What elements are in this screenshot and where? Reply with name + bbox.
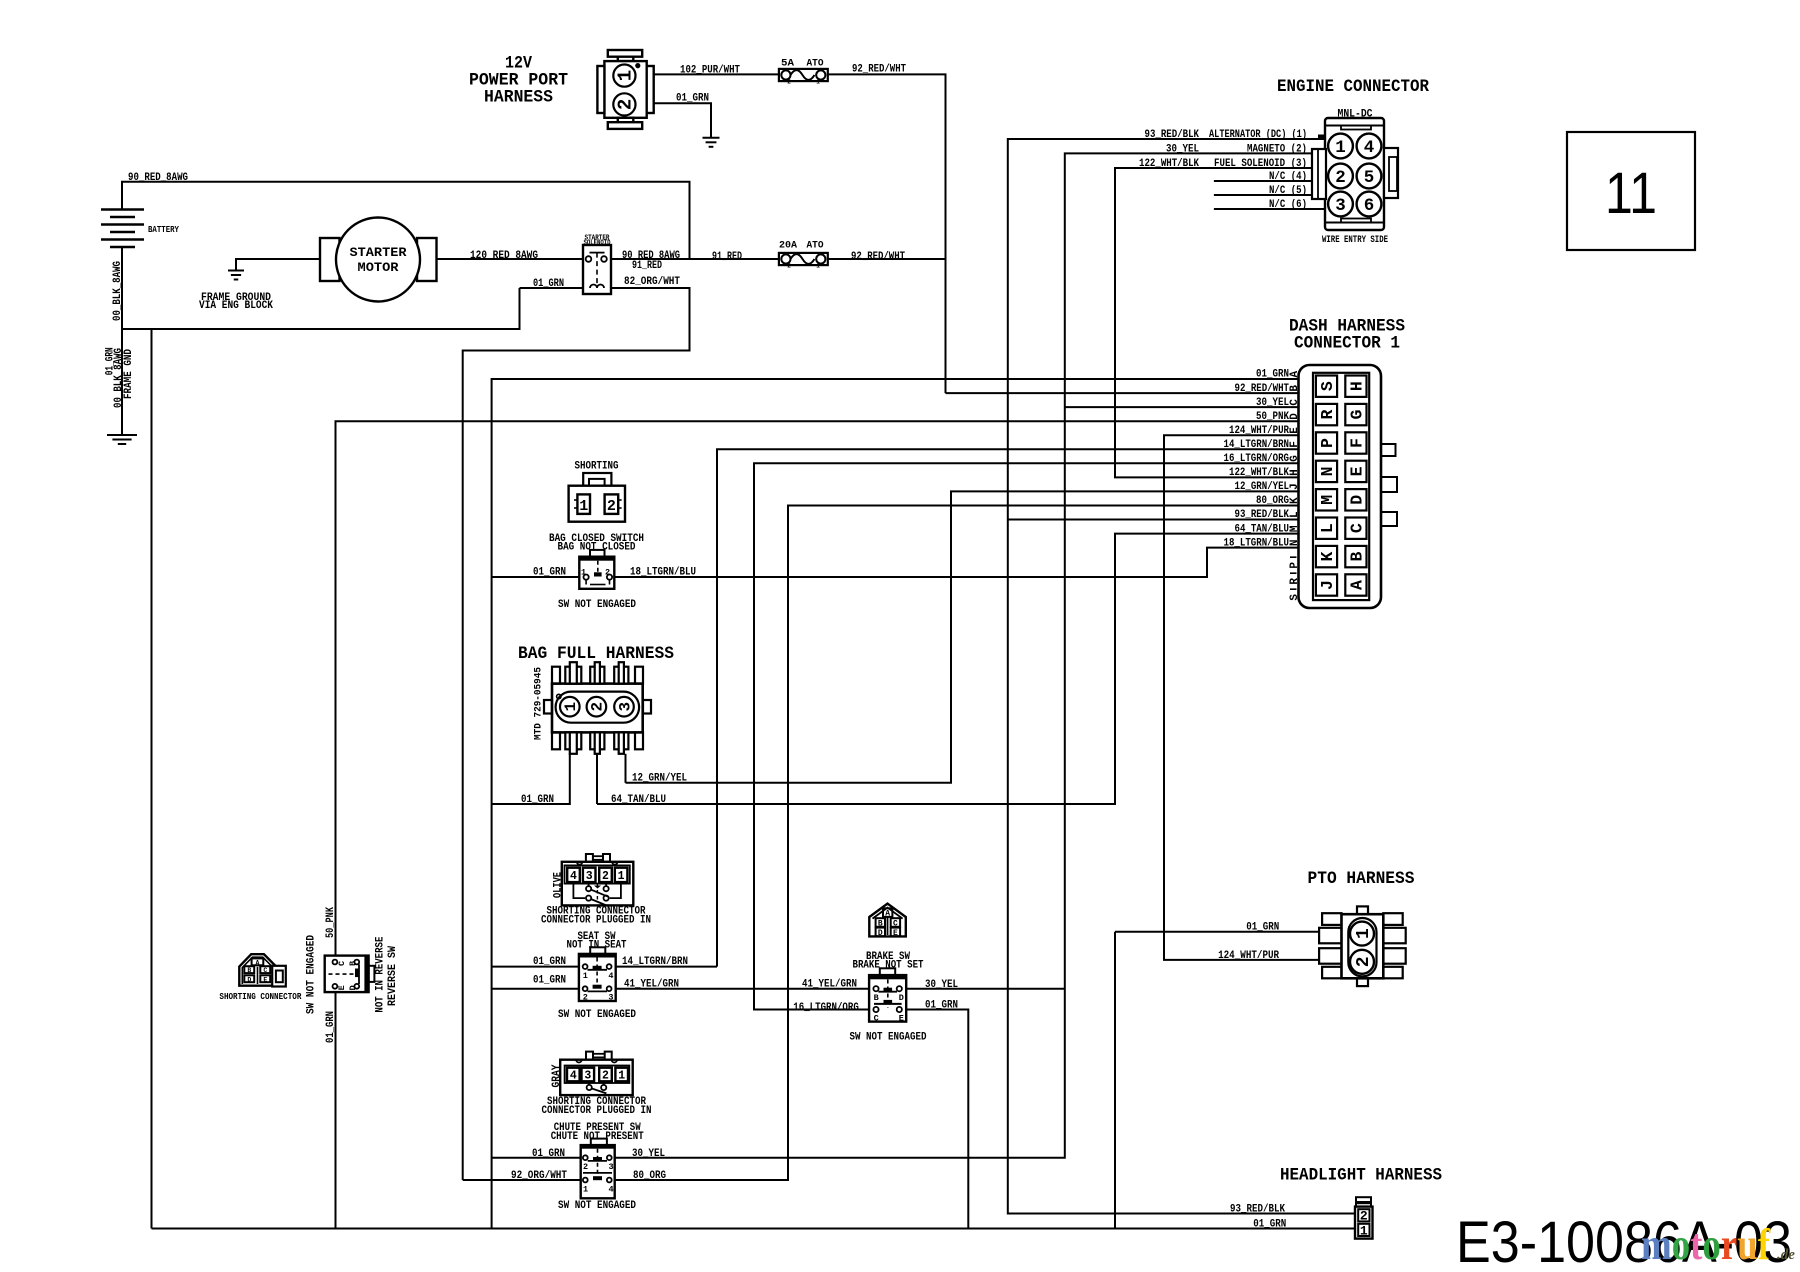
olive shorting pin 1 bbox=[615, 868, 628, 882]
starter motor bbox=[320, 238, 340, 281]
dash pin box D bbox=[1345, 489, 1366, 510]
dash pin box J bbox=[1316, 574, 1337, 595]
svg-text:J: J bbox=[1289, 483, 1301, 490]
wire 01_GRN bag harness pin1 bbox=[492, 754, 570, 804]
svg-text:D: D bbox=[1289, 413, 1301, 420]
svg-text:01_GRN: 01_GRN bbox=[533, 956, 566, 968]
svg-text:STARTER: STARTER bbox=[350, 246, 408, 260]
olive shorting internal contacts bbox=[573, 882, 585, 898]
wire 12_GRN/YEL bag harness pin3 bbox=[625, 754, 627, 783]
svg-text:2: 2 bbox=[787, 79, 791, 86]
svg-text:L: L bbox=[1318, 523, 1337, 533]
svg-text:M: M bbox=[1289, 525, 1301, 532]
svg-text:B: B bbox=[1289, 385, 1301, 392]
svg-text:BRAKE NOT SET: BRAKE NOT SET bbox=[853, 959, 924, 971]
svg-text:F: F bbox=[1289, 441, 1301, 448]
svg-text:1: 1 bbox=[618, 870, 625, 883]
svg-text:01_GRN: 01_GRN bbox=[325, 1011, 337, 1043]
svg-text:2: 2 bbox=[615, 99, 637, 110]
svg-text:NOT IN SEAT: NOT IN SEAT bbox=[567, 939, 627, 951]
svg-text:CONNECTOR PLUGGED IN: CONNECTOR PLUGGED IN bbox=[541, 914, 651, 926]
watermark motoruf.de bbox=[1641, 1220, 1795, 1269]
wire 01_GRN to chute pin2 bbox=[492, 1157, 581, 1159]
svg-text:90_RED_8AWG: 90_RED_8AWG bbox=[128, 172, 188, 184]
svg-text:01_GRN: 01_GRN bbox=[676, 92, 709, 104]
bag harness pin 3 bbox=[614, 697, 634, 717]
svg-text:01_GRN: 01_GRN bbox=[533, 278, 564, 290]
wire 14_LTGRN/BRN seat switch pin4 bbox=[616, 966, 717, 968]
svg-text:E: E bbox=[1347, 466, 1366, 476]
svg-text:50_PNK: 50_PNK bbox=[325, 907, 337, 938]
svg-text:2: 2 bbox=[583, 1162, 588, 1172]
svg-text:1: 1 bbox=[583, 1185, 588, 1195]
svg-text:122_WHT/BLK: 122_WHT/BLK bbox=[1229, 467, 1289, 479]
dash pin box L bbox=[1316, 518, 1337, 539]
svg-text:N: N bbox=[1318, 466, 1337, 476]
dash pin box B bbox=[1345, 546, 1366, 567]
svg-text:102_PUR/WHT: 102_PUR/WHT bbox=[680, 64, 740, 76]
svg-text:01_GRN: 01_GRN bbox=[533, 567, 566, 579]
brake house pin D bbox=[876, 928, 885, 937]
brake house pin C bbox=[891, 918, 900, 927]
svg-text:3: 3 bbox=[608, 993, 613, 1003]
connector engine MNL-DC bbox=[1325, 118, 1384, 230]
svg-text:5A: 5A bbox=[781, 58, 795, 70]
svg-text:SW NOT ENGAGED: SW NOT ENGAGED bbox=[306, 935, 318, 1014]
svg-text:HEADLIGHT HARNESS: HEADLIGHT HARNESS bbox=[1280, 1166, 1442, 1186]
dash connector key tabs bbox=[1381, 444, 1396, 456]
svg-text:FUEL SOLENOID (3): FUEL SOLENOID (3) bbox=[1214, 158, 1307, 170]
wire 90_RED_8AWG battery to solenoid feed bbox=[122, 182, 690, 259]
switch seat bbox=[590, 947, 605, 954]
svg-text:HARNESS: HARNESS bbox=[484, 88, 553, 108]
svg-text:ATO: ATO bbox=[807, 58, 824, 70]
svg-text:E: E bbox=[263, 976, 267, 983]
wire 16_LTGRN/ORG dash pin G bbox=[754, 463, 1299, 1009]
dash pin box C bbox=[1345, 518, 1366, 539]
bag harness pin 2 bbox=[587, 697, 607, 717]
svg-text:01_GRN: 01_GRN bbox=[521, 794, 554, 806]
svg-text:FRAME GND: FRAME GND bbox=[123, 349, 135, 399]
shorting pin 1 bbox=[577, 494, 590, 514]
svg-text:01_GRN: 01_GRN bbox=[1253, 1219, 1286, 1231]
svg-text:4: 4 bbox=[570, 1070, 577, 1083]
svg-text:C: C bbox=[263, 967, 267, 974]
olive shorting pin 4 bbox=[567, 868, 580, 882]
svg-text:2: 2 bbox=[602, 870, 609, 883]
page reference box 11 bbox=[1567, 132, 1695, 250]
engine connector pin 1 bbox=[1328, 134, 1353, 159]
wire 92_RED/WHT 20A fuse to node bbox=[828, 258, 946, 260]
wire 64_TAN/BLU dash pin M bbox=[597, 534, 1299, 804]
fuse F1 5A ATO bbox=[779, 69, 828, 81]
svg-text:41_YEL/GRN: 41_YEL/GRN bbox=[624, 978, 679, 990]
svg-text:1: 1 bbox=[583, 971, 588, 981]
svg-text:REVERSE SW: REVERSE SW bbox=[387, 946, 399, 1006]
svg-text:B: B bbox=[874, 993, 879, 1003]
wire 01_GRN brake pinE to bottom line bbox=[906, 1010, 968, 1229]
svg-text:92_RED/WHT: 92_RED/WHT bbox=[852, 63, 906, 75]
wire 01_GRN seat switch pin2 bbox=[492, 988, 579, 990]
connector PTO harness bbox=[1319, 906, 1406, 986]
svg-text:G: G bbox=[1289, 455, 1301, 462]
svg-text:VIA ENG BLOCK: VIA ENG BLOCK bbox=[199, 300, 273, 312]
svg-text:N/C (5): N/C (5) bbox=[1269, 185, 1307, 197]
dash pin box N bbox=[1316, 461, 1337, 482]
wire 93_RED/BLK dash pin L bbox=[1008, 519, 1299, 521]
svg-text:1: 1 bbox=[816, 79, 820, 86]
svg-text:L: L bbox=[1289, 511, 1301, 518]
wire 82_ORG/WHT solenoid coil right bbox=[463, 288, 690, 1180]
connector shorting 2-pin bbox=[583, 473, 611, 486]
battery bbox=[101, 210, 144, 248]
wire 30_YEL brake pinD to 30_YEL bus bbox=[906, 988, 1065, 990]
svg-text:2: 2 bbox=[1335, 168, 1346, 188]
wire 120_RED_8AWG motor to solenoid bbox=[437, 258, 583, 260]
svg-text:D: D bbox=[899, 993, 904, 1003]
svg-text:93_RED/BLK: 93_RED/BLK bbox=[1145, 129, 1200, 141]
svg-text:16_LTGRN/ORG: 16_LTGRN/ORG bbox=[1224, 453, 1290, 465]
svg-text:1: 1 bbox=[579, 498, 588, 515]
svg-text:3: 3 bbox=[616, 702, 634, 712]
PTO pin 1 bbox=[1350, 922, 1374, 946]
svg-text:1: 1 bbox=[562, 702, 580, 712]
wire 01_GRN power port ground bbox=[654, 103, 711, 138]
svg-text:4: 4 bbox=[570, 870, 577, 883]
svg-text:P: P bbox=[1318, 438, 1337, 448]
wire N/C (6) bbox=[1214, 208, 1326, 210]
svg-text:3: 3 bbox=[586, 870, 593, 883]
wire 124_WHT/PUR dash pin E bbox=[1164, 435, 1342, 960]
svg-text:A: A bbox=[256, 959, 260, 966]
svg-text:E: E bbox=[1289, 427, 1301, 434]
svg-text:H: H bbox=[1347, 381, 1366, 391]
wire 102_PUR/WHT power port to 5A fuse bbox=[654, 73, 779, 75]
svg-text:01_GRN: 01_GRN bbox=[925, 1000, 958, 1012]
switch reverse (rotated) bbox=[325, 956, 369, 993]
dash pin box E bbox=[1345, 461, 1366, 482]
connector shorting house (brake sw) bbox=[869, 904, 906, 937]
svg-text:MNL-DC: MNL-DC bbox=[1338, 109, 1373, 121]
svg-text:1: 1 bbox=[1360, 1223, 1368, 1238]
svg-text:2: 2 bbox=[787, 263, 791, 270]
svg-text:G: G bbox=[1347, 410, 1366, 420]
house pin E bbox=[260, 975, 270, 982]
svg-text:30_YEL: 30_YEL bbox=[1256, 397, 1289, 409]
svg-text:92_RED/WHT: 92_RED/WHT bbox=[1235, 383, 1290, 395]
bag harness left tab bbox=[544, 700, 552, 714]
gray pin row outline bbox=[565, 1066, 630, 1084]
connector shorting house (reverse sw) bbox=[239, 954, 276, 986]
brake house pin A bbox=[883, 908, 892, 917]
svg-text:C: C bbox=[874, 1014, 879, 1024]
svg-text:1: 1 bbox=[615, 70, 637, 81]
svg-text:A: A bbox=[1289, 371, 1301, 378]
wire N/C (5) bbox=[1214, 194, 1326, 196]
connector bag full harness MTD 729-05945 bbox=[552, 684, 643, 733]
svg-text:6: 6 bbox=[1364, 196, 1375, 216]
svg-text:SW NOT ENGAGED: SW NOT ENGAGED bbox=[558, 599, 636, 611]
svg-text:MAGNETO (2): MAGNETO (2) bbox=[1247, 143, 1307, 155]
svg-text:C: C bbox=[1347, 523, 1366, 533]
svg-text:B: B bbox=[1347, 552, 1366, 562]
connector dash harness 1 bbox=[1299, 365, 1382, 608]
wire 00_BLK_8AWG ground bus bbox=[122, 288, 520, 329]
starter solenoid bbox=[583, 245, 611, 294]
svg-text:F: F bbox=[1347, 438, 1366, 448]
olive shorting pin 2 bbox=[599, 868, 612, 882]
svg-text:.de: .de bbox=[1777, 1247, 1795, 1263]
svg-text:E: E bbox=[337, 985, 347, 990]
svg-text:2: 2 bbox=[607, 498, 616, 515]
svg-text:4: 4 bbox=[608, 971, 613, 981]
svg-text:D: D bbox=[878, 929, 883, 938]
svg-text:ALTERNATOR (DC) (1): ALTERNATOR (DC) (1) bbox=[1209, 129, 1307, 141]
house pin B bbox=[244, 966, 254, 973]
svg-text:120_RED_8AWG: 120_RED_8AWG bbox=[470, 250, 538, 262]
svg-text:91_RED: 91_RED bbox=[712, 251, 742, 263]
engine connector pin 3 bbox=[1328, 192, 1353, 217]
house pin A bbox=[252, 958, 264, 965]
svg-text:14_LTGRN/BRN: 14_LTGRN/BRN bbox=[1224, 439, 1290, 451]
svg-text:3: 3 bbox=[609, 1162, 614, 1172]
engine connector pin 5 bbox=[1357, 164, 1382, 189]
fuse F2 20A ATO bbox=[779, 253, 828, 265]
bag harness right tab bbox=[643, 700, 651, 714]
svg-text:D: D bbox=[348, 985, 358, 990]
svg-text:01_GRN: 01_GRN bbox=[1256, 369, 1289, 381]
svg-text:ATO: ATO bbox=[807, 239, 824, 251]
shorting pin 2 bbox=[605, 494, 619, 514]
brake house pin B bbox=[876, 918, 885, 927]
svg-text:1: 1 bbox=[618, 1070, 625, 1083]
connector headlight harness bbox=[1356, 1197, 1371, 1202]
svg-text:00_BLK_8AWG: 00_BLK_8AWG bbox=[112, 261, 124, 321]
connector shorting gray 4-pin bbox=[586, 1052, 593, 1060]
svg-text:124_WHT/PUR: 124_WHT/PUR bbox=[1229, 425, 1289, 437]
svg-text:R: R bbox=[1289, 578, 1301, 585]
svg-text:motoruf: motoruf bbox=[1641, 1220, 1771, 1269]
wire 122_WHT/BLK fuel solenoid bbox=[1115, 168, 1326, 477]
svg-text:C: C bbox=[1289, 399, 1301, 406]
svg-text:3: 3 bbox=[584, 1070, 591, 1083]
svg-text:C: C bbox=[337, 961, 347, 966]
svg-text:14_LTGRN/BRN: 14_LTGRN/BRN bbox=[622, 956, 688, 968]
wire 01_GRN PTO pin1 bbox=[1115, 931, 1342, 933]
wire 41_YEL/GRN seat pin3 to brake pinB bbox=[616, 988, 869, 990]
bag harness pin 1 bbox=[560, 697, 580, 717]
svg-text:BAG NOT CLOSED: BAG NOT CLOSED bbox=[558, 541, 636, 553]
switch chute present bbox=[591, 1139, 607, 1146]
svg-text:4: 4 bbox=[1364, 138, 1375, 158]
wire 01_GRN to bag closed switch bbox=[492, 576, 580, 578]
PTO pin 2 bbox=[1350, 950, 1374, 974]
dash pin box R bbox=[1316, 404, 1337, 425]
gray shorting pin 4 bbox=[567, 1068, 580, 1082]
svg-text:16_LTGRN/ORG: 16_LTGRN/ORG bbox=[793, 1002, 859, 1014]
gray shorting pin 3 bbox=[582, 1068, 595, 1082]
svg-text:CHUTE NOT PRESENT: CHUTE NOT PRESENT bbox=[551, 1131, 644, 1143]
wire 01_GRN bottom ground line to headlight bbox=[152, 1228, 1356, 1230]
wire 01_GRN seat switch pin1 bbox=[492, 966, 579, 968]
wire 30_YEL dash pin C bbox=[1065, 406, 1299, 408]
olive pin row outline bbox=[565, 865, 630, 883]
svg-text:82_ORG/WHT: 82_ORG/WHT bbox=[624, 276, 680, 288]
wire 01_GRN solenoid coil left bbox=[520, 287, 584, 289]
svg-text:4: 4 bbox=[609, 1185, 614, 1195]
svg-text:ENGINE CONNECTOR: ENGINE CONNECTOR bbox=[1277, 77, 1429, 97]
svg-text:11: 11 bbox=[1605, 161, 1657, 226]
svg-text:41_YEL/GRN: 41_YEL/GRN bbox=[802, 978, 857, 990]
wire 80_ORG dash pin K bbox=[615, 506, 1299, 1181]
svg-text:2: 2 bbox=[589, 702, 607, 712]
svg-text:P: P bbox=[1289, 562, 1301, 569]
svg-text:2: 2 bbox=[602, 1070, 609, 1083]
wire 01_GRN dash pin A bbox=[492, 379, 1299, 1229]
svg-text:NOT IN REVERSE: NOT IN REVERSE bbox=[375, 936, 387, 1012]
ground frame ground via eng block bbox=[228, 271, 244, 280]
switch bag closed bbox=[590, 550, 605, 557]
wire 50_PNK dash pin D bbox=[336, 421, 1299, 956]
engine connector pin 6 bbox=[1357, 192, 1382, 217]
svg-text:20A: 20A bbox=[779, 239, 798, 251]
svg-text:S: S bbox=[1318, 381, 1337, 391]
svg-text:01_GRN: 01_GRN bbox=[1246, 922, 1279, 934]
dash pin box K bbox=[1316, 546, 1337, 567]
wire frame gnd drop to bottom 01_GRN line bbox=[151, 329, 153, 1229]
svg-text:SW NOT ENGAGED: SW NOT ENGAGED bbox=[558, 1200, 636, 1212]
wire 12_GRN/YEL dash pin J bbox=[626, 491, 1299, 782]
svg-text:SW NOT ENGAGED: SW NOT ENGAGED bbox=[558, 1009, 636, 1021]
wire N/C (4) bbox=[1214, 180, 1326, 182]
svg-text:E: E bbox=[899, 1014, 904, 1024]
svg-text:1: 1 bbox=[816, 263, 820, 270]
svg-text:30_YEL: 30_YEL bbox=[925, 979, 958, 991]
connector shorting olive 4-pin bbox=[586, 854, 593, 862]
svg-text:D: D bbox=[1347, 495, 1366, 505]
dash pin box H bbox=[1345, 376, 1366, 397]
svg-text:2: 2 bbox=[1354, 956, 1374, 967]
svg-text:12_GRN/YEL: 12_GRN/YEL bbox=[632, 772, 687, 784]
svg-text:92_RED/WHT: 92_RED/WHT bbox=[851, 251, 905, 263]
svg-text:3: 3 bbox=[1335, 196, 1346, 216]
svg-text:B: B bbox=[348, 961, 358, 966]
svg-text:SHORTING CONNECTOR: SHORTING CONNECTOR bbox=[219, 991, 301, 1002]
svg-text:WIRE ENTRY SIDE: WIRE ENTRY SIDE bbox=[1322, 235, 1388, 246]
gray shorting pin 1 bbox=[615, 1068, 628, 1082]
wire 90_RED_8AWG / 91_RED solenoid to 20A fuse bbox=[611, 258, 779, 260]
svg-text:A: A bbox=[1347, 580, 1366, 590]
wire 01_GRN reverse switch to bottom line bbox=[335, 992, 337, 1228]
svg-text:N: N bbox=[1289, 539, 1301, 546]
svg-text:18_LTGRN/BLU: 18_LTGRN/BLU bbox=[630, 567, 696, 579]
svg-text:5: 5 bbox=[1364, 168, 1375, 188]
switch brake bbox=[880, 968, 895, 975]
svg-text:30_YEL: 30_YEL bbox=[1166, 143, 1199, 155]
svg-text:64_TAN/BLU: 64_TAN/BLU bbox=[1235, 523, 1290, 535]
svg-text:80_ORG: 80_ORG bbox=[1256, 495, 1289, 507]
svg-text:91_RED: 91_RED bbox=[632, 260, 662, 272]
gray shorting internal contacts bbox=[588, 1081, 590, 1085]
olive shorting pin 3 bbox=[583, 868, 596, 882]
dash pin box G bbox=[1345, 404, 1366, 425]
wire 30_YEL magneto bbox=[609, 153, 1326, 1157]
wire 92_ORG/WHT to chute pin1 bbox=[463, 1179, 581, 1181]
svg-text:01_GRN: 01_GRN bbox=[533, 975, 566, 987]
dash pin box P bbox=[1316, 432, 1337, 453]
wire 64_TAN/BLU bag harness pin2 bbox=[596, 754, 598, 804]
svg-text:BAG FULL HARNESS: BAG FULL HARNESS bbox=[518, 644, 674, 664]
dash pin box A bbox=[1345, 574, 1366, 595]
svg-text:122_WHT/BLK: 122_WHT/BLK bbox=[1139, 158, 1199, 170]
wire 01_GRN PTO drop to bottom line bbox=[1114, 932, 1116, 1229]
wire 92_RED/WHT 5A fuse to node bbox=[828, 74, 946, 393]
svg-text:H: H bbox=[1289, 469, 1301, 476]
svg-text:1: 1 bbox=[1354, 928, 1374, 939]
svg-text:18_LTGRN/BLU: 18_LTGRN/BLU bbox=[1224, 537, 1290, 549]
svg-text:50_PNK: 50_PNK bbox=[1256, 411, 1289, 423]
svg-text:D: D bbox=[247, 976, 251, 983]
gray shorting pin 2 bbox=[599, 1068, 612, 1082]
svg-text:BATTERY: BATTERY bbox=[148, 224, 179, 235]
svg-text:93_RED/BLK: 93_RED/BLK bbox=[1230, 1204, 1285, 1216]
svg-text:92_ORG/WHT: 92_ORG/WHT bbox=[511, 1170, 567, 1182]
svg-text:SHORTING: SHORTING bbox=[575, 461, 619, 473]
svg-text:80_ORG: 80_ORG bbox=[633, 1170, 666, 1182]
wire battery negative to frame ground bbox=[121, 247, 123, 434]
svg-text:B: B bbox=[247, 967, 251, 974]
ground power port bbox=[703, 138, 720, 147]
svg-text:MOTOR: MOTOR bbox=[358, 261, 400, 275]
svg-text:PTO HARNESS: PTO HARNESS bbox=[1308, 869, 1415, 889]
svg-text:M: M bbox=[1318, 495, 1337, 505]
svg-text:2: 2 bbox=[583, 993, 588, 1003]
svg-text:J: J bbox=[1318, 580, 1337, 590]
svg-text:N/C (6): N/C (6) bbox=[1269, 199, 1307, 211]
svg-text:64_TAN/BLU: 64_TAN/BLU bbox=[611, 794, 666, 806]
wire 18_LTGRN/BLU dash pin N bbox=[614, 548, 1298, 577]
ground frame gnd below battery bbox=[107, 435, 137, 444]
dash pin box M bbox=[1316, 489, 1337, 510]
svg-text:R: R bbox=[1318, 410, 1337, 420]
svg-text:A: A bbox=[885, 910, 890, 919]
svg-text:1: 1 bbox=[1335, 138, 1346, 158]
svg-text:N/C (4): N/C (4) bbox=[1269, 171, 1307, 183]
svg-text:2: 2 bbox=[605, 568, 610, 578]
house pin D bbox=[244, 975, 254, 982]
svg-text:K: K bbox=[1318, 552, 1337, 562]
dash pin letter separators bbox=[1290, 556, 1297, 558]
wire 14_LTGRN/BRN dash pin F bbox=[717, 449, 1299, 966]
svg-text:CONNECTOR PLUGGED IN: CONNECTOR PLUGGED IN bbox=[542, 1105, 652, 1117]
house pin C bbox=[260, 966, 270, 973]
svg-text:1: 1 bbox=[581, 568, 586, 578]
svg-text:12_GRN/YEL: 12_GRN/YEL bbox=[1235, 481, 1290, 493]
svg-text:E: E bbox=[893, 929, 898, 938]
svg-text:GRAY: GRAY bbox=[551, 1064, 563, 1087]
dash pin box S bbox=[1316, 376, 1337, 397]
svg-text:CONNECTOR 1: CONNECTOR 1 bbox=[1294, 334, 1400, 354]
svg-text:01_GRN: 01_GRN bbox=[532, 1148, 565, 1160]
svg-text:SOLENOID: SOLENOID bbox=[584, 240, 611, 248]
connector 12V power port bbox=[597, 50, 653, 129]
svg-text:30_YEL: 30_YEL bbox=[632, 1148, 665, 1160]
wire starter motor ground stub bbox=[236, 259, 320, 271]
svg-text:2: 2 bbox=[1360, 1209, 1368, 1224]
svg-text:93_RED/BLK: 93_RED/BLK bbox=[1235, 509, 1290, 521]
engine connector pin 4 bbox=[1357, 134, 1382, 159]
dash pin box F bbox=[1345, 432, 1366, 453]
